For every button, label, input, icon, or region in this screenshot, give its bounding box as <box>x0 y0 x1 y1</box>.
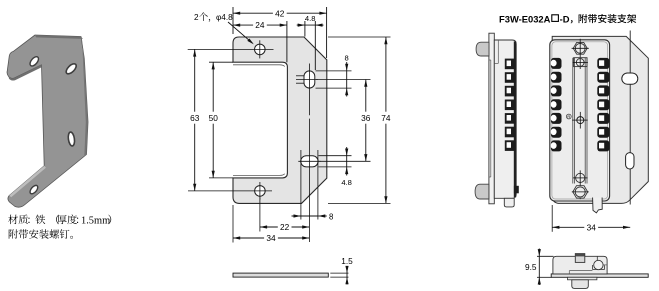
front view: center strip <box>572 58 574 184</box>
dim 42 <box>233 12 273 14</box>
extension lines right <box>316 70 352 72</box>
front view: left lens column <box>551 58 562 69</box>
dim 8 (lower slot width) <box>292 215 319 217</box>
front view: lower screw <box>576 173 585 182</box>
dim 63 <box>194 49 196 111</box>
note: mounting screws included <box>9 229 18 238</box>
side view: sensor body <box>494 40 516 198</box>
side view: upper connector lug <box>476 42 489 56</box>
dim 24 <box>233 24 253 26</box>
bend line (bottom arm) <box>233 174 285 176</box>
svg-text:9.5: 9.5 <box>525 262 537 272</box>
dim 22 <box>260 226 278 228</box>
front view: bracket behind sensor <box>552 36 648 203</box>
bracket outline (front view) <box>233 37 327 203</box>
dim 9.5 <box>537 255 554 257</box>
circled R mark <box>566 114 571 119</box>
svg-text:63: 63 <box>190 113 200 123</box>
top view: sensor body <box>553 256 607 274</box>
top view: connector under plate <box>568 277 597 280</box>
dim 34 (middle view) <box>233 237 264 239</box>
hole phi4.8 (top left) with center marks <box>254 44 265 55</box>
bracket hole (bottom arm oval) <box>29 184 40 195</box>
svg-text:74: 74 <box>381 113 391 123</box>
top view: screw mount details <box>591 265 593 269</box>
front view: bottom connector tab <box>593 198 603 213</box>
svg-text:4.8: 4.8 <box>341 178 352 187</box>
extension lines top <box>232 7 234 34</box>
side view: small black side tab <box>514 186 519 194</box>
svg-text:φ4.8: φ4.8 <box>216 13 233 22</box>
slot 4.8x8 (upper, vertical) <box>304 71 315 88</box>
top view: small tab <box>575 254 585 263</box>
slot 8x4.8 (lower, horizontal) <box>301 156 318 167</box>
3D pictorial view of mounting bracket <box>7 35 88 207</box>
front view: top hex screw <box>573 42 587 54</box>
front view: clamp piece with screw <box>574 58 587 67</box>
top view: bracket flange plate <box>551 274 648 277</box>
front view: right lens column <box>597 58 609 69</box>
svg-text:1.5: 1.5 <box>341 256 353 266</box>
svg-text:50: 50 <box>209 113 219 123</box>
extension lines left <box>188 48 274 50</box>
note: material iron thickness 1.5mm <box>8 215 18 224</box>
front view: mid adjusting screw <box>577 117 584 124</box>
top view: screw head <box>594 260 603 269</box>
svg-text:-D: -D <box>560 13 570 24</box>
side view: bottom connector stub <box>504 198 514 207</box>
front view: lower hex screw <box>573 186 588 198</box>
svg-text:2: 2 <box>194 13 199 22</box>
dim 50 <box>212 62 214 111</box>
side view: bracket plate edge-on <box>489 33 494 204</box>
bracket bend line <box>629 31 631 205</box>
svg-text:1.5mm: 1.5mm <box>81 215 110 226</box>
bend line (top arm) <box>233 65 285 67</box>
bracket hole (spine upper oval) <box>64 62 77 75</box>
svg-text:F3W-E032A: F3W-E032A <box>499 13 551 24</box>
dim 1.5 <box>346 266 348 285</box>
bracket hole (top arm oval) <box>28 55 40 67</box>
dim 36 <box>365 80 367 112</box>
svg-text:R: R <box>567 114 570 119</box>
svg-text:34: 34 <box>587 223 597 233</box>
svg-text:22: 22 <box>280 222 290 232</box>
dim 4.8 (top slot width) <box>297 24 316 26</box>
svg-text:8: 8 <box>344 54 348 63</box>
hole phi4.8 (bottom left) with center marks <box>255 186 266 197</box>
bracket hole (spine lower oval) <box>67 132 75 147</box>
bracket slot (middle, vertical) <box>626 153 634 169</box>
extension lines bottom <box>300 150 302 220</box>
side view: lower connector lug <box>475 184 489 199</box>
svg-text:24: 24 <box>255 20 265 30</box>
dim 4.8 (lower slot height) <box>346 147 348 176</box>
side view: front edge (dark) <box>514 41 516 197</box>
svg-text:36: 36 <box>361 113 371 123</box>
front view: sensor body <box>550 40 610 201</box>
side view: optical windows column <box>505 59 515 70</box>
dim 34 (right view) <box>551 205 553 232</box>
svg-text:34: 34 <box>266 233 276 243</box>
dim 8 (upper slot height) <box>346 62 348 97</box>
bracket slot (top, horizontal) <box>622 73 638 84</box>
svg-text:42: 42 <box>275 8 285 18</box>
plate thickness view <box>233 273 328 277</box>
svg-text:4.8: 4.8 <box>305 14 316 23</box>
svg-text:8: 8 <box>329 213 333 222</box>
dim 74 <box>385 37 387 112</box>
